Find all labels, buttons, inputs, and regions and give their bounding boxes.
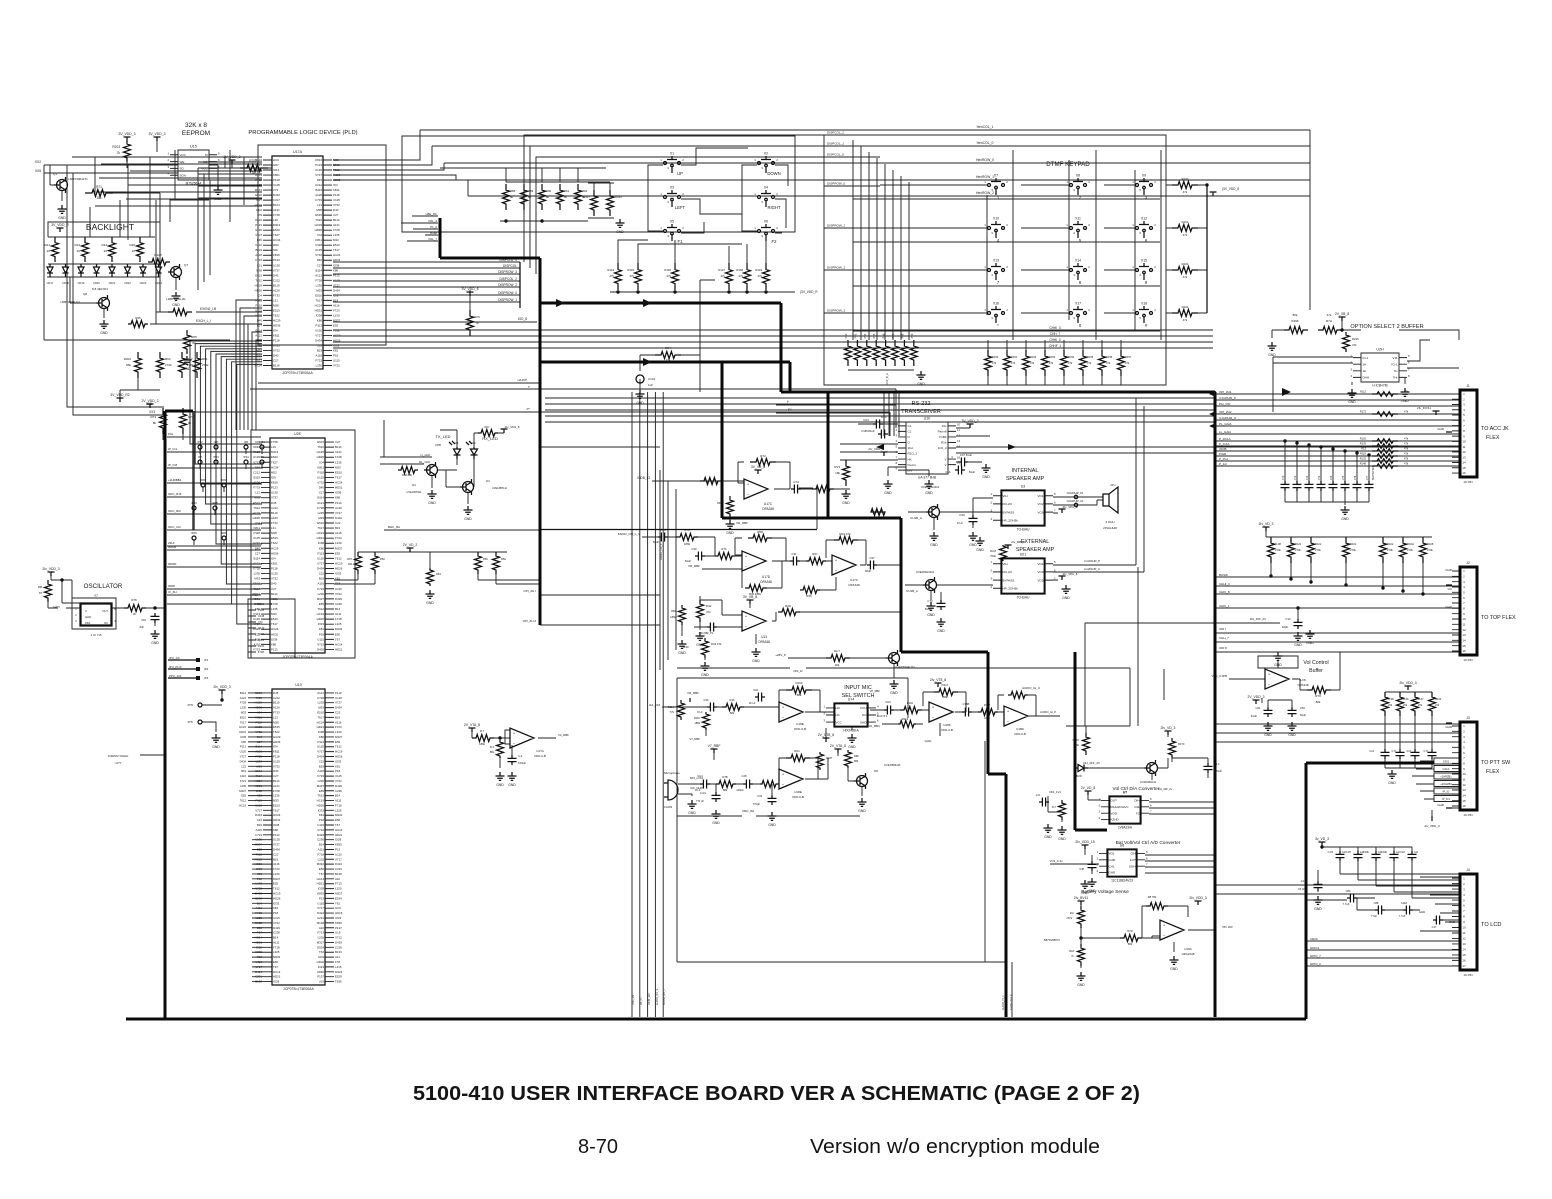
svg-text:V737: V737 <box>273 268 280 272</box>
svg-text:FADIO_OU_L_V: FADIO_OU_L_V <box>618 532 640 536</box>
svg-text:1: 1 <box>1066 308 1068 312</box>
svg-text:HD31: HD31 <box>255 784 263 788</box>
svg-text:COU: COU <box>860 706 867 710</box>
svg-text:IO38: IO38 <box>335 491 342 495</box>
svg-text:R8 78k: R8 78k <box>1148 895 1157 899</box>
svg-text:GHD: GHD <box>1445 605 1453 609</box>
svg-text:P128: P128 <box>273 178 280 182</box>
svg-text:GND: GND <box>925 491 933 495</box>
svg-text:HC: HC <box>1448 587 1453 591</box>
svg-text:7: 7 <box>895 456 897 460</box>
svg-text:A116: A116 <box>335 720 342 724</box>
svg-text:2V_VD_8: 2V_VD_8 <box>1081 786 1096 790</box>
svg-text:B138: B138 <box>335 872 342 876</box>
svg-text:P96: P96 <box>882 333 886 338</box>
svg-text:GND: GND <box>508 783 516 787</box>
svg-text:P118: P118 <box>317 470 324 474</box>
svg-text:IO28: IO28 <box>273 980 280 984</box>
svg-text:R62: R62 <box>187 357 193 361</box>
svg-text:HD31: HD31 <box>335 486 343 490</box>
svg-text:E55: E55 <box>335 551 341 555</box>
svg-text:R61: R61 <box>202 357 208 361</box>
svg-text:VA_RBF): VA_RBF) <box>869 724 880 728</box>
svg-text:IODB_IO: IODB_IO <box>637 476 650 480</box>
svg-text:B114: B114 <box>335 445 342 449</box>
svg-text:81uF: 81uF <box>925 607 932 611</box>
svg-text:A111: A111 <box>318 847 325 851</box>
svg-text:HC24: HC24 <box>239 725 246 729</box>
svg-text:R84: R84 <box>671 609 676 613</box>
svg-text:T612: T612 <box>240 799 247 803</box>
svg-text:D40: D40 <box>319 486 325 490</box>
svg-text:IO9: IO9 <box>271 475 276 479</box>
svg-text:U110: U110 <box>255 960 262 964</box>
svg-text:P97: P97 <box>891 333 895 338</box>
svg-text:R163: R163 <box>1360 437 1367 441</box>
svg-text:4: 4 <box>877 704 879 708</box>
svg-text:F718: F718 <box>335 803 342 807</box>
svg-text:GND: GND <box>842 501 850 505</box>
svg-text:1 IC 7-B: 1 IC 7-B <box>90 633 101 637</box>
svg-text:P118: P118 <box>273 755 280 759</box>
svg-text:9: 9 <box>1463 612 1465 616</box>
svg-text:47k: 47k <box>1352 343 1357 347</box>
svg-text:V73: V73 <box>273 188 279 192</box>
svg-text:E510: E510 <box>317 710 324 714</box>
svg-text:P118: P118 <box>273 338 280 342</box>
svg-text:47k: 47k <box>757 274 762 278</box>
svg-text:E55: E55 <box>319 789 325 793</box>
svg-text:P_IC1A: P_IC1A <box>1219 442 1229 446</box>
svg-text:DH_2FF_2V: DH_2FF_2V <box>1083 761 1100 765</box>
svg-text:3v1_V18: 3v1_V18 <box>649 703 660 707</box>
svg-text:2Iv_VDD_15: 2Iv_VDD_15 <box>1075 840 1094 844</box>
svg-text:13: 13 <box>957 439 961 443</box>
svg-text:C22: C22 <box>333 293 339 297</box>
svg-text:E55: E55 <box>257 847 263 851</box>
svg-text:U110: U110 <box>335 852 342 856</box>
svg-text:HD31: HD31 <box>253 597 261 601</box>
svg-text:P18: P18 <box>333 353 339 357</box>
svg-text:P137: P137 <box>317 975 324 979</box>
svg-text:OPA-0-B: OPA-0-B <box>792 795 804 799</box>
svg-text:8U88: 8U88 <box>430 231 437 235</box>
svg-text:R18: R18 <box>1069 949 1074 953</box>
svg-text:V732: V732 <box>273 348 280 352</box>
svg-text:18k: 18k <box>835 471 840 475</box>
svg-text:D429: D429 <box>273 926 280 930</box>
svg-text:F728: F728 <box>240 701 247 705</box>
svg-text:M33: M33 <box>335 465 341 469</box>
svg-text:R157: R157 <box>1125 355 1132 359</box>
svg-text:2: 2 <box>167 158 169 162</box>
svg-text:P123: P123 <box>253 450 260 454</box>
svg-text:K835: K835 <box>335 843 342 847</box>
svg-text:I^: I^ <box>528 385 531 389</box>
svg-text:2: 2 <box>990 500 992 504</box>
svg-text:120pF: 120pF <box>736 788 744 792</box>
svg-text:2: 2 <box>1463 882 1465 886</box>
svg-text:C1 b: C1 b <box>1214 762 1220 766</box>
svg-text:B119: B119 <box>253 475 260 479</box>
svg-text:K86: K86 <box>241 740 246 744</box>
svg-text:17: 17 <box>1462 964 1466 968</box>
svg-text:F718: F718 <box>273 945 280 949</box>
svg-text:P^: P^ <box>788 408 792 412</box>
svg-text:A126: A126 <box>253 481 260 485</box>
svg-text:P123: P123 <box>271 486 278 490</box>
svg-text:R07: R07 <box>812 552 818 556</box>
svg-text:L220: L220 <box>335 887 342 891</box>
svg-text:Version w/o encryption module: Version w/o encryption module <box>810 1136 1100 1158</box>
svg-text:P118: P118 <box>333 193 340 197</box>
svg-text:C81: C81 <box>141 618 146 622</box>
svg-text:GND: GND <box>1044 835 1052 839</box>
svg-text:V717: V717 <box>317 906 324 910</box>
svg-text:V727: V727 <box>333 283 340 287</box>
svg-text:3: 3 <box>1073 231 1075 235</box>
svg-text:8uF: 8uF <box>140 625 145 629</box>
svg-text:E510: E510 <box>317 521 324 525</box>
svg-text:M327: M327 <box>317 940 325 944</box>
svg-text:E520: E520 <box>273 228 280 232</box>
svg-text:3V_VDD_3: 3V_VDD_3 <box>224 155 241 159</box>
svg-text:16 PIN: 16 PIN <box>1463 973 1472 977</box>
svg-text:C33: C33 <box>757 794 762 798</box>
svg-text:GND: GND <box>976 548 984 552</box>
svg-text:L235: L235 <box>318 511 325 515</box>
svg-text:2: 2 <box>776 226 778 230</box>
svg-text:V732: V732 <box>333 203 340 207</box>
svg-text:E510: E510 <box>253 582 260 586</box>
svg-text:R3H: R3H <box>785 604 791 608</box>
svg-text:E520: E520 <box>255 193 262 197</box>
svg-text:88k: 88k <box>854 759 859 763</box>
svg-text:BYPASS: BYPASS <box>1003 578 1015 582</box>
svg-text:4: 4 <box>1350 374 1352 378</box>
svg-text:1: 1 <box>1132 180 1134 184</box>
svg-text:77uF: 77uF <box>1371 914 1377 918</box>
svg-text:X14: X14 <box>1075 259 1081 263</box>
svg-text:GHD: GHD <box>1437 427 1445 431</box>
svg-text:P118: P118 <box>271 567 278 571</box>
svg-text:A111: A111 <box>273 940 280 944</box>
svg-text:12: 12 <box>957 433 961 437</box>
svg-text:0008: 0008 <box>168 584 175 588</box>
svg-text:E515: E515 <box>333 163 340 167</box>
svg-text:B114: B114 <box>253 556 260 560</box>
svg-text:LV8: LV8 <box>1300 678 1305 682</box>
svg-text:Pexmr: Pexmr <box>908 463 917 467</box>
svg-text:EEPROM: EEPROM <box>182 130 210 137</box>
svg-text:U17C: U17C <box>850 578 859 582</box>
svg-text:B114: B114 <box>255 745 262 749</box>
svg-text:HC29: HC29 <box>255 701 263 705</box>
svg-text:1: 1 <box>1132 223 1134 227</box>
svg-text:L225: L225 <box>318 857 325 861</box>
svg-text:M38: M38 <box>333 158 339 162</box>
svg-text:U115: U115 <box>255 882 262 886</box>
svg-text:P18: P18 <box>319 632 325 636</box>
svg-text:VIH: VIH <box>1003 494 1008 498</box>
svg-text:L230: L230 <box>256 838 263 842</box>
svg-text:C131: C131 <box>648 377 656 381</box>
svg-text:J4: J4 <box>1466 868 1470 872</box>
svg-text:K830: K830 <box>335 921 342 925</box>
svg-text:+: + <box>782 772 785 777</box>
svg-text:1: 1 <box>1132 308 1134 312</box>
svg-text:IO38: IO38 <box>273 823 280 827</box>
svg-text:A131: A131 <box>273 208 280 212</box>
svg-text:C18b: C18b <box>1381 851 1388 854</box>
svg-text:C30: C30 <box>691 547 697 551</box>
svg-text:L225: L225 <box>256 916 263 920</box>
svg-text:F723: F723 <box>335 725 342 729</box>
svg-text:CH3: CH3 <box>885 700 891 704</box>
svg-text:(P1: (P1 <box>204 658 209 662</box>
svg-text:P123: P123 <box>273 258 280 262</box>
svg-text:F723: F723 <box>317 587 324 591</box>
svg-text:5100-410 USER INTERFACE BOARD: 5100-410 USER INTERFACE BOARD VER A SCHE… <box>413 1083 1140 1105</box>
svg-text:TO LCD: TO LCD <box>1481 922 1501 928</box>
svg-text:HC24: HC24 <box>273 813 281 817</box>
svg-text:L220: L220 <box>318 936 325 940</box>
svg-text:D429: D429 <box>335 597 342 601</box>
svg-text:E510: E510 <box>315 293 322 297</box>
svg-text:P95: P95 <box>872 333 876 338</box>
svg-text:A126: A126 <box>255 253 262 257</box>
svg-text:8?: 8? <box>39 591 42 595</box>
svg-text:U110: U110 <box>317 901 324 905</box>
svg-text:F733: F733 <box>273 710 280 714</box>
svg-text:L21: L21 <box>273 298 278 302</box>
svg-text:K1: K1 <box>455 441 459 445</box>
svg-text:OPTION SELECT 2 BUFFER: OPTION SELECT 2 BUFFER <box>1350 324 1423 330</box>
svg-text:IP8: IP8 <box>214 440 218 444</box>
svg-text:DC: DC <box>862 713 867 717</box>
svg-text:81uF: 81uF <box>1251 714 1257 718</box>
svg-text:M337: M337 <box>255 843 263 847</box>
svg-text:U120: U120 <box>255 803 262 807</box>
svg-text:P^: P^ <box>527 407 531 411</box>
svg-text:V737: V737 <box>315 173 322 177</box>
svg-text:E534: E534 <box>317 945 324 949</box>
svg-text:P118: P118 <box>253 531 260 535</box>
svg-text:VO1_C IH: VO1_C IH <box>1050 859 1063 863</box>
svg-text:U17A: U17A <box>293 150 303 154</box>
svg-text:186k: 186k <box>670 615 676 619</box>
svg-text:M: M <box>205 153 208 157</box>
svg-text:C27: C27 <box>255 551 261 555</box>
svg-text:LMBT3904L111: LMBT3904L111 <box>166 297 186 301</box>
svg-text:WE: WE <box>180 160 185 164</box>
svg-text:−: − <box>782 782 785 787</box>
svg-text:U130: U130 <box>315 168 322 172</box>
svg-text:700k: 700k <box>990 554 996 558</box>
svg-text:U18A: U18A <box>1184 947 1192 951</box>
svg-text:GND: GND <box>858 809 866 813</box>
svg-text:2: 2 <box>682 158 684 162</box>
svg-text:X6: X6 <box>764 220 768 224</box>
svg-text:K830: K830 <box>317 970 324 974</box>
svg-text:RM: RM <box>38 585 43 589</box>
svg-text:CHHF_1: CHHF_1 <box>1049 344 1062 348</box>
svg-text:3: 3 <box>1463 403 1465 407</box>
svg-text:R-7: R-7 <box>480 729 485 733</box>
svg-text:D4: D4 <box>412 483 416 487</box>
svg-text:IO33: IO33 <box>318 622 325 626</box>
svg-text:T627: T627 <box>273 233 280 237</box>
svg-text:D40: D40 <box>317 258 323 262</box>
svg-text:+: + <box>932 705 935 710</box>
svg-text:D434: D434 <box>255 813 262 817</box>
svg-text:5: 5 <box>1463 591 1465 595</box>
svg-text:1: 1 <box>1066 180 1068 184</box>
svg-text:HC24: HC24 <box>255 363 263 367</box>
svg-text:GND: GND <box>969 543 977 547</box>
svg-text:HD21: HD21 <box>255 940 263 944</box>
svg-text:47k: 47k <box>666 274 671 278</box>
svg-text:R-b: R-b <box>1070 911 1075 915</box>
svg-text:IPA8: IPA8 <box>221 478 227 482</box>
svg-text:R90: R90 <box>546 189 552 193</box>
svg-text:T62: T62 <box>335 901 340 905</box>
svg-text:HD7: HD7 <box>273 163 279 167</box>
svg-text:SPEAKER AMP: SPEAKER AMP <box>1006 476 1045 482</box>
svg-text:47k: 47k <box>1404 390 1409 394</box>
svg-text:R42: R42 <box>706 604 712 608</box>
svg-text:K811: K811 <box>271 561 278 565</box>
svg-text:T622: T622 <box>273 313 280 317</box>
svg-text:+: + <box>835 558 838 563</box>
svg-text:1: 1 <box>984 180 986 184</box>
svg-text:R5H: R5H <box>501 557 506 561</box>
svg-text:1: 1 <box>660 158 662 162</box>
svg-text:77k: 77k <box>670 710 675 714</box>
svg-text:U115: U115 <box>317 823 324 827</box>
svg-text:R101: R101 <box>1182 220 1189 224</box>
svg-text:IPA5: IPA5 <box>200 478 206 482</box>
svg-text:R145: R145 <box>627 268 634 272</box>
svg-text:186k: 186k <box>984 716 990 720</box>
svg-text:V722: V722 <box>255 887 262 891</box>
svg-text:K86: K86 <box>317 318 323 322</box>
svg-text:D3: D3 <box>486 479 490 483</box>
svg-text:T617: T617 <box>253 587 260 591</box>
svg-text:14: 14 <box>1462 948 1466 952</box>
svg-text:GND: GND <box>937 629 945 633</box>
svg-text:X4: X4 <box>764 186 768 190</box>
svg-text:U120: U120 <box>317 556 324 560</box>
svg-text:OSCILLATOR: OSCILLATOR <box>84 583 123 590</box>
svg-text:K821: K821 <box>258 602 265 606</box>
svg-text:A131: A131 <box>258 644 265 648</box>
svg-text:T612: T612 <box>335 556 342 560</box>
svg-text:E50: E50 <box>335 632 341 636</box>
svg-text:2V_VD_2: 2V_VD_2 <box>403 543 418 547</box>
svg-text:C70: C70 <box>1282 475 1285 480</box>
svg-text:T617: T617 <box>255 358 262 362</box>
svg-text:P98: P98 <box>900 333 904 338</box>
svg-text:K816: K816 <box>253 445 260 449</box>
svg-text:A116: A116 <box>335 531 342 535</box>
svg-text:2: 2 <box>1154 308 1156 312</box>
svg-text:K811: K811 <box>315 238 322 242</box>
svg-text:A126: A126 <box>273 706 280 710</box>
svg-text:HC19: HC19 <box>333 333 341 337</box>
svg-text:2: 2 <box>1006 223 1008 227</box>
svg-text:R178: R178 <box>1360 442 1367 446</box>
svg-text:HO: HO <box>203 160 208 164</box>
svg-text:1: 1 <box>1132 265 1134 269</box>
svg-text:VCC: VCC <box>836 720 843 724</box>
svg-text:P18: P18 <box>335 582 341 586</box>
svg-text:M33: M33 <box>256 764 262 768</box>
svg-text:OU?: OU? <box>1111 799 1118 803</box>
svg-text:E55: E55 <box>335 740 341 744</box>
svg-text:IP24: IP24 <box>259 440 265 444</box>
svg-text:C28: C28 <box>742 774 747 778</box>
svg-text:TO ACC JK: TO ACC JK <box>1481 426 1509 432</box>
svg-text:B114: B114 <box>255 328 262 332</box>
svg-text:XX2: XX2 <box>35 160 42 164</box>
svg-text:2: 2 <box>1098 803 1100 807</box>
svg-text:R88: R88 <box>510 189 516 193</box>
svg-text:F78: F78 <box>335 960 340 964</box>
svg-text:B119: B119 <box>273 283 280 287</box>
svg-text:D410: D410 <box>255 158 262 162</box>
svg-text:10v: 10v <box>942 424 947 428</box>
svg-text:LEFT: LEFT <box>675 205 686 210</box>
svg-text:IP7: IP7 <box>198 455 202 459</box>
svg-text:11: 11 <box>1462 445 1465 449</box>
svg-text:P92: P92 <box>844 333 848 338</box>
svg-text:E55: E55 <box>319 602 325 606</box>
svg-text:U125: U125 <box>315 248 322 252</box>
svg-text:R1?3: R1?3 <box>1178 742 1185 746</box>
svg-text:R7B: R7B <box>722 775 727 779</box>
svg-text:GND: GND <box>726 531 734 535</box>
svg-text:GND: GND <box>927 613 935 617</box>
svg-text:K811: K811 <box>273 750 280 754</box>
svg-text:9: 9 <box>1463 767 1465 771</box>
svg-text:U15: U15 <box>335 931 341 935</box>
svg-text:U1b: U1b <box>924 417 931 421</box>
svg-text:K86: K86 <box>273 828 279 832</box>
svg-text:Y7: Y7 <box>94 594 98 598</box>
svg-text:7: 7 <box>1463 601 1465 605</box>
svg-text:7: 7 <box>1463 424 1465 428</box>
svg-text:IP?b: IP?b <box>188 720 194 724</box>
svg-text:R170: R170 <box>1073 738 1080 742</box>
svg-text:C22: C22 <box>241 764 246 768</box>
svg-text:D40: D40 <box>255 546 261 550</box>
svg-text:R-3: R-3 <box>490 745 495 749</box>
svg-text:HC19: HC19 <box>273 892 281 896</box>
svg-text:A121: A121 <box>317 691 324 695</box>
svg-text:I 0?7: I 0?7 <box>115 761 122 765</box>
svg-text:M337: M337 <box>239 789 246 793</box>
svg-text:2: 2 <box>895 428 897 432</box>
svg-text:V732: V732 <box>317 481 324 485</box>
svg-text:R-0b: R-0b <box>1403 697 1409 701</box>
svg-text:K81: K81 <box>335 764 341 768</box>
svg-text:D429: D429 <box>317 647 324 651</box>
svg-text:270k: 270k <box>187 363 194 367</box>
svg-text:D45: D45 <box>271 501 277 505</box>
svg-text:R153: R153 <box>1049 355 1056 359</box>
svg-text:C-H: C-H <box>1392 750 1397 753</box>
